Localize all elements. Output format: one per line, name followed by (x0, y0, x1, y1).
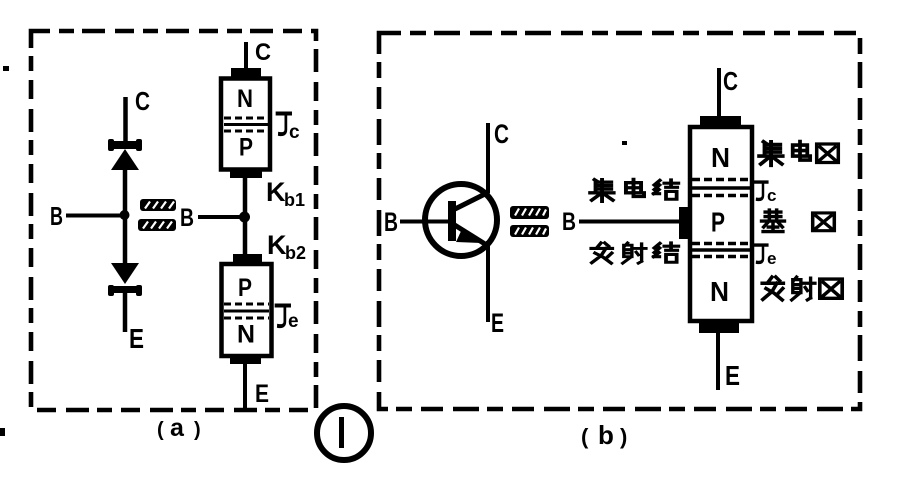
wire: C lead of stacked structure (a) (244, 42, 248, 70)
P-N box (emitter junction box) (222, 264, 272, 356)
svg-text:E: E (129, 323, 144, 354)
svg-text:C: C (723, 66, 738, 96)
svg-text:a: a (170, 414, 185, 442)
label E (transistor) (491, 308, 504, 338)
transistor emitter stroke with arrow (453, 224, 485, 244)
label C (structure b) (723, 66, 738, 96)
wire: B lead into transistor (400, 220, 450, 224)
wire: E lead of diode pair (123, 292, 128, 332)
scan speck left edge (3, 66, 9, 71)
electrode bar bottom of N-P box (230, 169, 262, 178)
label B (diode pair) (50, 201, 63, 231)
electrode bar top of N box (231, 68, 261, 77)
label 发射区 (emitter region) (762, 277, 842, 300)
transistor collector stroke (455, 192, 489, 209)
label P (box a bottom) (238, 274, 252, 302)
label 区 (region, base) (813, 213, 835, 231)
electrode bar bottom of P-N box (230, 355, 261, 364)
svg-text:(: ( (581, 424, 589, 449)
junction Je lines (box a) (224, 304, 269, 318)
diode D1 triangle (B-C junction) (111, 149, 139, 170)
label N (structure b bottom) (710, 276, 729, 307)
svg-text:e: e (288, 311, 299, 332)
node B junction dot (left) (120, 210, 130, 220)
svg-text:e: e (767, 249, 776, 268)
wire: E lead (transistor) (486, 241, 490, 322)
wire: E lead (structure b) (716, 333, 720, 390)
N-P box (collector junction box) (221, 79, 270, 170)
svg-text:N: N (237, 321, 255, 349)
junction Jc lines (box a) (224, 118, 268, 131)
label B (transistor symbol) (384, 207, 398, 237)
wire: between boxes (base region) (243, 178, 248, 256)
N-P-N box (structure b) (690, 127, 752, 321)
svg-text:P: P (711, 207, 725, 238)
base electrode tab (679, 207, 690, 239)
svg-text:(: ( (157, 419, 164, 441)
svg-text:c: c (289, 122, 300, 143)
wire: C lead (transistor) (486, 123, 490, 193)
svg-text:P: P (239, 134, 253, 162)
label 发射结 (emitter junction) (591, 243, 678, 263)
label N (box a bottom) (237, 321, 255, 349)
label E (structure a) (255, 380, 269, 408)
label B (structure a) (180, 204, 194, 232)
svg-text:B: B (384, 207, 398, 237)
wire: B lead (structure b) (579, 220, 682, 224)
scan speck dot panel b (622, 141, 627, 145)
label Je (box a) (276, 306, 299, 333)
label C (transistor) (494, 119, 509, 149)
svg-text:): ) (620, 424, 627, 449)
wire: E lead (structure a) (243, 364, 247, 409)
label Jc (box a) (277, 114, 300, 144)
svg-text:E: E (491, 308, 504, 338)
label P (box a top) (239, 134, 253, 162)
svg-text:E: E (725, 360, 740, 391)
label C (diode pair) (135, 86, 150, 116)
svg-text:C: C (255, 39, 271, 66)
svg-text:): ) (194, 419, 201, 441)
scan speck left lower (0, 428, 5, 436)
wire: C lead of diode pair (123, 97, 128, 142)
label Jc (structure b) (755, 182, 777, 205)
equivalence sign (hatched bars, panel b) (510, 206, 549, 237)
junction Jc lines (structure b) (692, 180, 750, 196)
svg-text:b1: b1 (284, 190, 305, 210)
svg-text:K: K (266, 177, 286, 207)
label E (structure b) (725, 360, 740, 391)
label C (structure a) (255, 39, 271, 66)
panel (b) dashed border (379, 33, 860, 409)
wire: B lead (structure a) (198, 215, 243, 219)
svg-text:N: N (237, 85, 253, 113)
svg-text:b: b (598, 420, 614, 450)
label N (box a top) (237, 85, 253, 113)
panel (a) dashed border (31, 31, 316, 410)
svg-text:B: B (562, 208, 576, 236)
svg-text:C: C (135, 86, 150, 116)
label 基 (base) (762, 210, 785, 232)
label P (structure b) (711, 207, 725, 238)
svg-text:B: B (50, 201, 63, 231)
label N (structure b top) (711, 142, 730, 173)
wire: D1 to D2 (123, 169, 128, 264)
label (a) (157, 414, 201, 442)
label E (diode pair) (129, 323, 144, 354)
svg-text:c: c (767, 186, 776, 205)
diode D2 triangle (B-E junction) (111, 263, 139, 284)
wire: B lead (left) (66, 214, 123, 218)
svg-text:B: B (180, 204, 194, 232)
svg-text:b2: b2 (285, 243, 306, 263)
svg-text:E: E (255, 380, 269, 408)
junction Je lines (structure b) (692, 244, 750, 257)
label B (structure b) (562, 208, 576, 236)
label Kb2 (267, 230, 306, 263)
label 集电结 (collector junction) (590, 179, 678, 201)
transistor Q1 circle (425, 184, 497, 256)
equivalence sign (hatched bars, panel a) (138, 199, 176, 231)
electrode bar top of P-N box (233, 254, 262, 264)
svg-text:C: C (494, 119, 509, 149)
wire: C lead (structure b) (717, 68, 721, 116)
electrode bar bottom (structure b) (699, 321, 739, 333)
diode D2 cathode bar (108, 285, 142, 296)
label 集电区 (collector region) (759, 142, 838, 166)
svg-text:N: N (711, 142, 730, 173)
node B junction dot (structure a) (239, 212, 250, 223)
electrode bar top (structure b) (700, 116, 741, 128)
svg-text:N: N (710, 276, 729, 307)
svg-text:K: K (267, 230, 287, 260)
label Je (structure b) (755, 245, 777, 268)
diode D1 cathode bar (108, 139, 142, 151)
transistor base bar (448, 201, 456, 241)
figure number circle 1 (317, 406, 371, 460)
label Kb1 (266, 177, 305, 210)
label (b) (581, 420, 627, 450)
svg-text:P: P (238, 274, 252, 302)
